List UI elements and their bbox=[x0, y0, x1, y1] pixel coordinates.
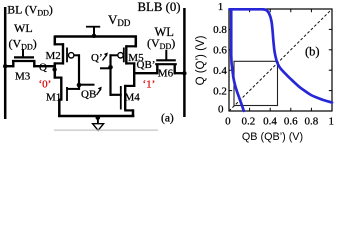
transistor M4 source stub bbox=[124, 109, 134, 111]
plot y tick labels bbox=[213, 1, 227, 115]
annotation arrow QB bbox=[97, 89, 102, 95]
plot tick marks bbox=[229, 9, 332, 111]
junction dot BL bbox=[3, 64, 7, 68]
wire M4 gate approach bbox=[110, 94, 122, 96]
transistor M3 channel bar bbox=[12, 60, 36, 62]
transistor M2 gate plate bbox=[66, 48, 68, 63]
wire ground rail bbox=[58, 115, 134, 118]
svg-text:‘1’: ‘1’ bbox=[143, 79, 156, 91]
svg-text:QB: QB bbox=[81, 89, 96, 101]
svg-text:Q (Q’) (V): Q (Q’) (V) bbox=[195, 35, 207, 85]
transistor M1 drain stub bbox=[54, 76, 63, 78]
svg-text:0.2: 0.2 bbox=[242, 116, 256, 128]
svg-text:M6: M6 bbox=[158, 68, 174, 80]
wire M1 gate stub bbox=[67, 88, 80, 90]
svg-text:M4: M4 bbox=[125, 91, 141, 103]
wire VDD rail bbox=[55, 35, 138, 38]
wire M1 source leg bbox=[58, 99, 61, 117]
svg-text:BLB (0): BLB (0) bbox=[138, 0, 181, 14]
transistor M6 gate bar bbox=[156, 59, 176, 61]
transistor M5 gate plate bbox=[123, 48, 125, 63]
svg-text:0.4: 0.4 bbox=[263, 116, 277, 128]
transistor M6 right leg bbox=[173, 64, 175, 75]
wire QB' to M6 bbox=[133, 72, 157, 74]
gray separator line bbox=[54, 129, 158, 131]
wire Q' stub bbox=[100, 67, 111, 69]
wire M4 source leg bbox=[132, 109, 135, 117]
transistor M1 source stub bbox=[58, 98, 62, 100]
wire M2 gate to QB bbox=[74, 54, 80, 56]
wire M2 source elbow bbox=[54, 36, 57, 46]
transistor M5 drain stub bbox=[126, 62, 136, 64]
transistor M3 right leg bbox=[33, 60, 35, 67]
svg-text:M3: M3 bbox=[15, 71, 31, 83]
wire WL gate stem right bbox=[165, 50, 167, 60]
svg-text:1: 1 bbox=[329, 116, 335, 128]
wire QB' drain vertical bbox=[133, 62, 135, 87]
junction dot ground bbox=[96, 115, 101, 120]
annotation arrow Q' bbox=[103, 55, 108, 61]
transistor M4 drain stub bbox=[124, 85, 135, 87]
wire QB gate vertical bbox=[78, 54, 80, 90]
transistor M2 channel bar bbox=[62, 43, 64, 64]
plot axes box bbox=[229, 9, 332, 111]
plot VTC curve 1 bbox=[230, 9, 333, 102]
transistor M4 channel bar bbox=[124, 85, 126, 111]
junction dot Q bbox=[52, 67, 56, 71]
power VDD stem bbox=[93, 27, 95, 36]
junction dot BLB bbox=[182, 71, 186, 75]
junction dot QB bbox=[77, 83, 82, 88]
svg-text:Q: Q bbox=[39, 62, 47, 74]
junction dot Q' bbox=[108, 65, 113, 70]
svg-text:0: 0 bbox=[225, 116, 231, 128]
wire BL to M3 bbox=[4, 65, 14, 67]
wire BL bit line bbox=[4, 7, 7, 119]
transistor M5 channel bar bbox=[125, 45, 127, 64]
transistor M4 gate plate bbox=[120, 86, 122, 110]
svg-text:0.4: 0.4 bbox=[213, 65, 227, 77]
svg-text:(b): (b) bbox=[305, 45, 320, 59]
ground triangle bbox=[93, 124, 104, 131]
wire M3 to node Q bbox=[33, 65, 56, 67]
wire M5 source elbow bbox=[135, 36, 138, 48]
svg-text:QB (QB’) (V): QB (QB’) (V) bbox=[242, 131, 303, 143]
transistor M1 gate plate bbox=[66, 87, 68, 101]
wire QB stub bbox=[79, 84, 95, 86]
ground stem bbox=[97, 117, 99, 124]
wire WL gate stem left bbox=[22, 50, 24, 59]
junction dot VDD bbox=[92, 34, 96, 38]
svg-text:0.8: 0.8 bbox=[305, 116, 319, 128]
svg-text:QB’: QB’ bbox=[137, 59, 156, 71]
svg-text:(a): (a) bbox=[161, 113, 174, 125]
svg-text:WL: WL bbox=[14, 21, 33, 35]
svg-text:0: 0 bbox=[218, 104, 224, 116]
transistor M5 bubble bbox=[118, 53, 123, 58]
transistor M6 left leg bbox=[156, 64, 158, 75]
transistor M2 source stub bbox=[54, 43, 64, 45]
wire M5 gate bbox=[110, 54, 118, 56]
transistor M2 bubble bbox=[69, 53, 74, 58]
wire Q' gate vertical bbox=[109, 54, 111, 96]
plot diagonal dashed line bbox=[229, 9, 332, 111]
svg-text:1: 1 bbox=[218, 1, 224, 13]
wire M6 to BLB bbox=[174, 72, 186, 74]
svg-text:M2: M2 bbox=[46, 50, 61, 62]
svg-text:0.2: 0.2 bbox=[213, 85, 227, 97]
svg-text:‘0’: ‘0’ bbox=[39, 79, 52, 91]
plot x tick labels bbox=[225, 116, 334, 128]
svg-text:0.8: 0.8 bbox=[213, 24, 227, 36]
transistor M1 channel bar bbox=[60, 77, 62, 101]
transistor M5 source stub bbox=[126, 45, 137, 47]
plot SNM square bbox=[234, 61, 278, 105]
transistor M3 gate bar bbox=[14, 56, 34, 58]
plot VTC curve 2 bbox=[231, 9, 244, 111]
svg-text:0.6: 0.6 bbox=[284, 116, 298, 128]
wire Q drain vertical bbox=[54, 62, 57, 78]
svg-text:Q’: Q’ bbox=[91, 52, 103, 64]
wire BLB bit line bbox=[183, 8, 186, 117]
svg-text:0.6: 0.6 bbox=[213, 45, 227, 57]
transistor M2 drain stub bbox=[54, 62, 64, 64]
transistor M6 channel bar bbox=[155, 63, 177, 65]
transistor M3 left leg bbox=[12, 60, 14, 67]
power VDD T-bar bbox=[86, 26, 100, 28]
